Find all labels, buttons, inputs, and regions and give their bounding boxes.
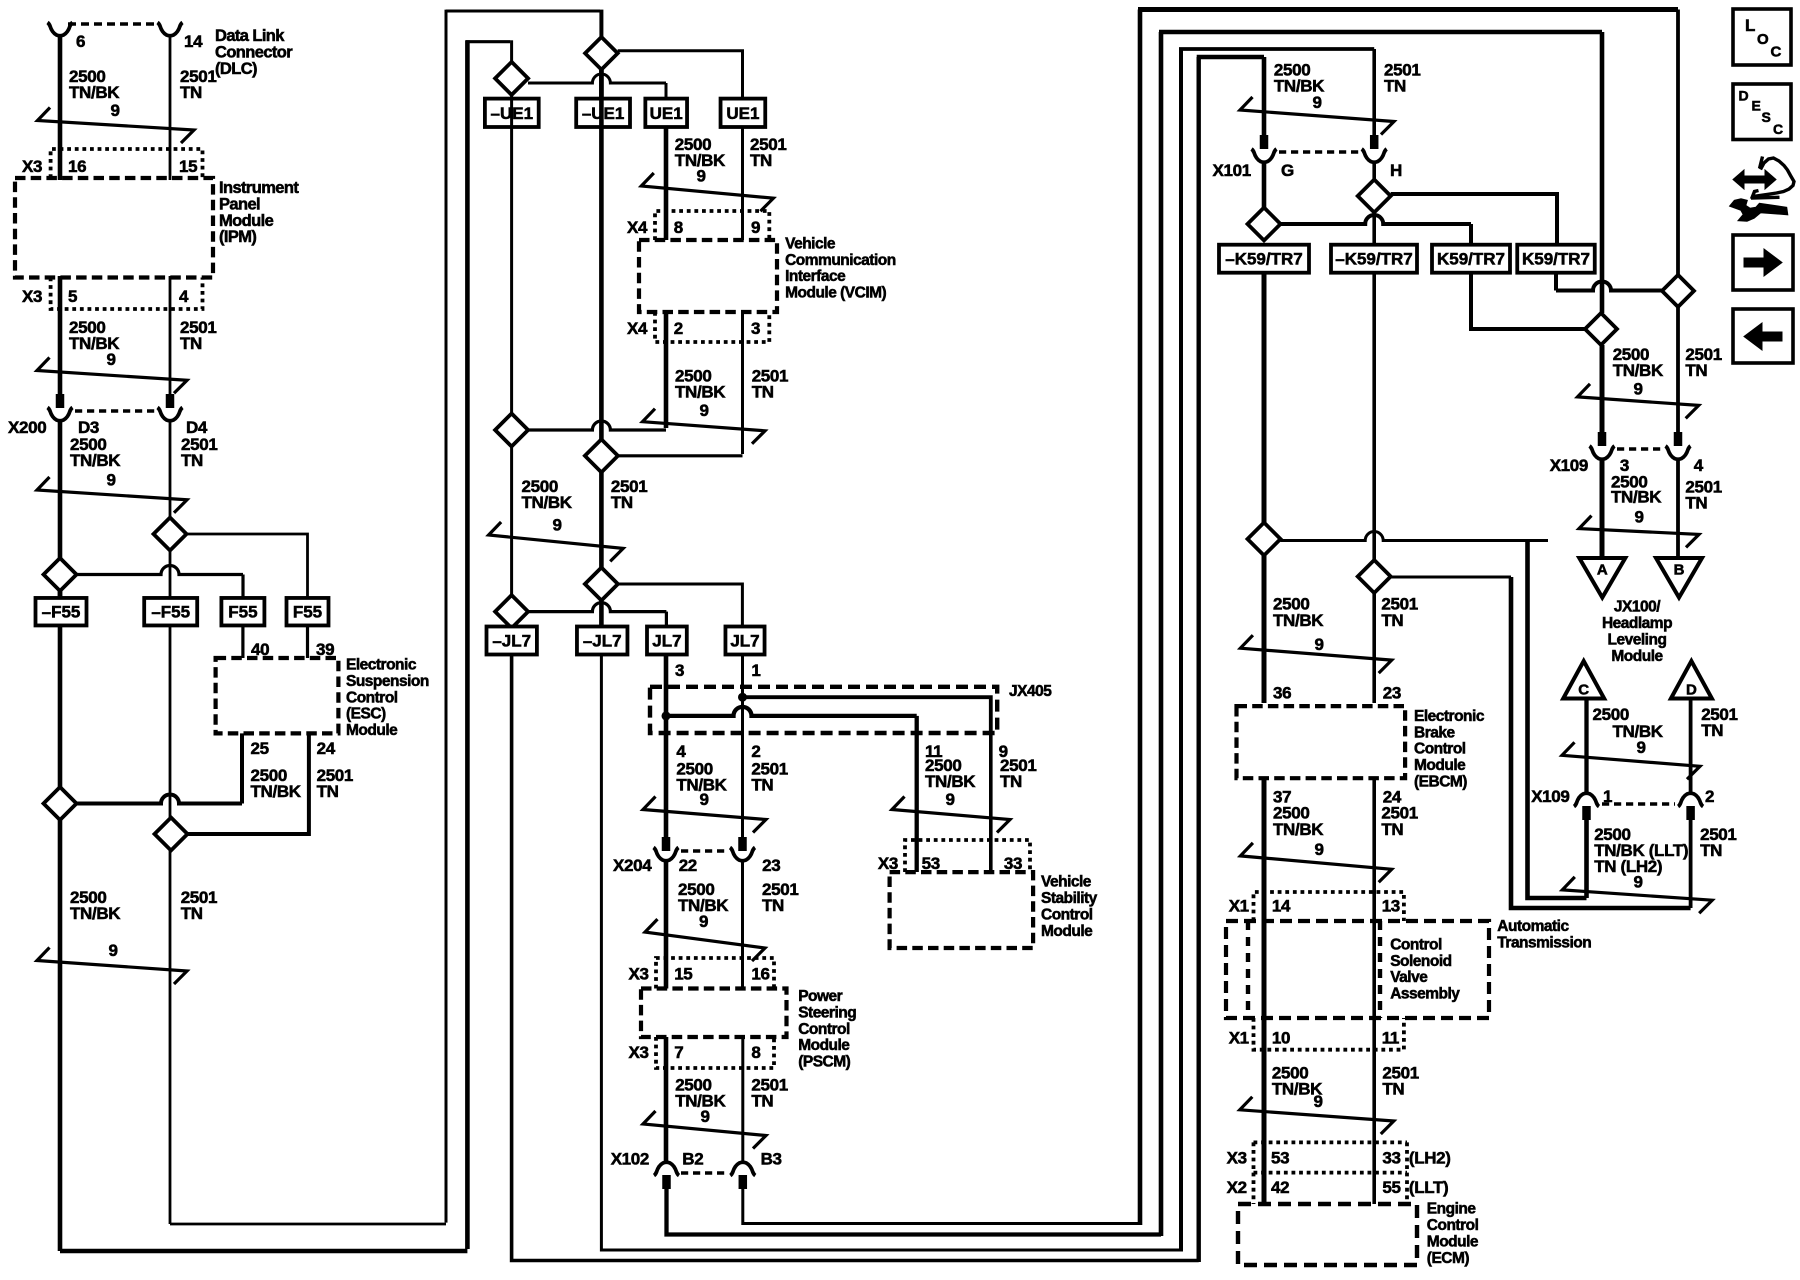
wire 2500 X102 to bottom run	[667, 1189, 1162, 1235]
connector X204 pin 23 stub	[738, 837, 747, 851]
wire 2501 long down left side	[169, 851, 172, 1225]
svg-text:TN: TN	[1685, 494, 1707, 513]
svg-text:Steering: Steering	[798, 1004, 856, 1021]
svg-text:X102: X102	[611, 1150, 649, 1169]
svg-text:9: 9	[552, 516, 561, 535]
svg-text:9: 9	[699, 912, 708, 931]
wire 2501 X200 down	[169, 421, 172, 518]
connector X200 pin D3 cup	[48, 408, 73, 421]
svg-text:F55: F55	[293, 603, 322, 622]
wire ESC pin24 loop to 2501 splice	[188, 733, 309, 834]
svg-text:9: 9	[945, 790, 954, 809]
wire 2500 X109-3 to triangle A	[1600, 459, 1605, 559]
svg-text:TN: TN	[611, 493, 633, 512]
svg-text:Control: Control	[798, 1021, 850, 1038]
svg-text:Control: Control	[1041, 906, 1093, 923]
wire 2500 JX405 pin4 to X204	[664, 733, 669, 838]
svg-text:14: 14	[184, 32, 203, 51]
svg-text:24: 24	[317, 739, 336, 758]
svg-text:(EBCM): (EBCM)	[1414, 774, 1467, 791]
splice diamond on 2501	[154, 518, 187, 551]
option box -F55 on wire 2501	[144, 598, 197, 626]
wire frame1 top 2501	[1138, 7, 1678, 12]
connector strip X3 IPM top	[51, 149, 203, 178]
svg-text:Module: Module	[1611, 648, 1663, 665]
svg-text:TN (LH2): TN (LH2)	[1594, 857, 1662, 876]
svg-text:C: C	[1773, 121, 1783, 137]
svg-text:53: 53	[1271, 1149, 1289, 1168]
wire frame1 right 2501 drop to diamond	[1676, 10, 1680, 275]
wire 2501 top run to bus	[446, 10, 600, 13]
wire ESC pin25 loop to 2500 splice with hop over 2501	[240, 733, 244, 803]
connector strip X3 VSCM	[905, 840, 1030, 872]
svg-text:33: 33	[1382, 1149, 1400, 1168]
splice diamond E on 2501 bus	[585, 568, 618, 601]
svg-text:16: 16	[751, 965, 769, 984]
svg-text:Transmission: Transmission	[1497, 934, 1591, 951]
wire diamond E to JL7 box4	[618, 584, 743, 627]
connector X204 pin 23 cup	[730, 848, 755, 861]
svg-text:X204: X204	[613, 856, 652, 875]
wire pin16 into IPM	[58, 151, 63, 180]
twisted pair symbol 9	[1240, 635, 1391, 673]
junction dot 2500	[662, 711, 671, 720]
connector X101 pin H cup	[1362, 149, 1387, 162]
svg-text:TN: TN	[1000, 772, 1022, 791]
svg-text:TN: TN	[751, 775, 773, 794]
wire 2501 JX405 pin9 to VSCM	[989, 733, 993, 872]
connector X109 pin 2 cup	[1678, 793, 1703, 806]
module box Automatic Transmission	[1226, 921, 1489, 1018]
twisted pair symbol 9	[641, 173, 773, 211]
svg-text:TN: TN	[750, 151, 772, 170]
svg-text:X2: X2	[1227, 1178, 1247, 1197]
wire pin15 into IPM	[169, 151, 172, 180]
wire 2501 triangle D to X109-2	[1689, 699, 1693, 795]
wire 2500 through CSVA	[1262, 921, 1267, 1018]
wire 2500 X109-1 down to corner	[1584, 820, 1589, 898]
wire 2501 X1-11 to ECM	[1372, 1018, 1376, 1204]
svg-text:Headlamp: Headlamp	[1602, 615, 1672, 632]
twisted pair symbol 9	[892, 797, 1010, 833]
svg-text:9: 9	[751, 218, 760, 237]
wire frame2 top 2500	[1159, 30, 1602, 34]
splice diamond C on 2500 bus	[495, 414, 528, 447]
wire 2501 through CSVA	[1372, 921, 1376, 1018]
svg-text:TN: TN	[751, 1091, 773, 1110]
wire 2501 upper run to diamond H2	[1390, 576, 1511, 579]
sidebar box left-arrow	[1733, 309, 1793, 363]
connector X109 pin 3 cup	[1590, 446, 1615, 459]
wire JX405 2501 branch to pin 9	[743, 697, 991, 733]
connector row X2 ECM	[1254, 1171, 1408, 1175]
wire 2501 EBCM pin24 to X1-13	[1372, 778, 1376, 921]
svg-text:Data Link: Data Link	[215, 27, 285, 45]
svg-text:JL7: JL7	[730, 632, 759, 651]
connector X101 pin H stub	[1370, 135, 1379, 149]
twisted pair symbol 9	[37, 358, 187, 394]
svg-text:9: 9	[1313, 1092, 1322, 1111]
connector X109 pin 2 stub	[1686, 806, 1695, 820]
connector strip X4 VCIM top	[655, 211, 769, 240]
wire frame4 top 2500	[1197, 55, 1264, 59]
connector DLC face dashed line	[68, 22, 158, 26]
option box -K59/TR7 on 2501	[1331, 245, 1417, 273]
wire 2501 X109-2 down to corner	[1689, 820, 1693, 908]
svg-text:–K59/TR7: –K59/TR7	[1225, 250, 1302, 269]
wire 2500 -JL7 continuation to bottom run	[512, 655, 1199, 1261]
offpage triangle A	[1579, 558, 1625, 598]
connector strip X3 PSCM bottom	[656, 1037, 774, 1068]
svg-text:TN: TN	[1700, 841, 1722, 860]
svg-text:Module: Module	[1041, 923, 1093, 940]
svg-text:13: 13	[1382, 896, 1400, 915]
svg-text:F55: F55	[228, 603, 257, 622]
wire 2501 TN DLC to IPM	[169, 36, 172, 152]
option box UE1 2500 branch	[645, 99, 687, 127]
svg-text:TN: TN	[1381, 611, 1403, 630]
svg-text:D: D	[1739, 88, 1749, 104]
svg-text:Control: Control	[346, 689, 398, 706]
option box JL7 2501 branch	[725, 627, 764, 655]
wire B 2501 drop to X109-4	[1676, 307, 1680, 432]
option box F55 ESC branch 2500	[221, 598, 264, 626]
svg-text:Instrument: Instrument	[219, 179, 299, 197]
junction dot 2501	[738, 693, 747, 702]
svg-text:Module: Module	[798, 1037, 850, 1054]
twisted pair symbol 9	[37, 948, 187, 985]
sidebar car icon	[1751, 157, 1794, 199]
offpage triangle C	[1563, 661, 1604, 699]
wire 2500 corner run to riser	[1528, 541, 1587, 899]
wire A 2500 drop to X109-3	[1600, 345, 1605, 432]
svg-text:TN/BK: TN/BK	[70, 451, 121, 470]
svg-text:TN/BK: TN/BK	[1273, 611, 1324, 630]
connector X109 pin 1 stub	[1582, 806, 1591, 820]
svg-text:55: 55	[1382, 1178, 1400, 1197]
wire 2500 through JX405 to pin 4	[664, 716, 669, 733]
svg-text:TN: TN	[1701, 721, 1723, 740]
option box JL7 2500 branch	[647, 627, 687, 655]
svg-text:Control: Control	[1414, 741, 1466, 758]
connector X204 pin 22 cup	[654, 848, 679, 861]
connector DLC pin 14 cup	[158, 23, 183, 36]
wire 2500 JX405 pin11 to VSCM	[915, 733, 919, 872]
wire VCIM pin3 down	[741, 312, 744, 454]
connector X109 pin 4 stub	[1674, 432, 1683, 446]
connector X200 pin D4 stub	[166, 394, 175, 408]
svg-text:9: 9	[696, 167, 705, 186]
svg-text:9: 9	[1314, 840, 1323, 859]
connector X101 pin G cup	[1252, 149, 1277, 162]
twisted pair symbol 9	[1562, 877, 1712, 913]
splice diamond B on 2500 bus	[495, 62, 528, 95]
svg-text:TN: TN	[1384, 77, 1406, 96]
connector strip X3 PSCM top	[656, 958, 774, 989]
svg-text:9: 9	[106, 471, 115, 490]
svg-text:C: C	[1578, 682, 1589, 699]
svg-text:TN/BK: TN/BK	[1611, 488, 1662, 507]
connector X109 pin 3 stub	[1598, 432, 1607, 446]
svg-text:Vehicle: Vehicle	[785, 235, 836, 252]
svg-text:TN/BK: TN/BK	[925, 772, 976, 791]
svg-text:TN: TN	[762, 896, 784, 915]
wire UE1 box4 to VCIM pin 9	[741, 127, 744, 240]
option box -UE1 on 2500	[485, 99, 539, 127]
svg-text:Leveling: Leveling	[1608, 631, 1667, 648]
connector X200 pin D4 cup	[158, 408, 183, 421]
svg-text:Solenoid: Solenoid	[1390, 953, 1451, 970]
svg-text:Electronic: Electronic	[1414, 708, 1485, 725]
wire diamond H to K59 box4	[1391, 194, 1557, 245]
module box EBCM	[1237, 706, 1406, 778]
svg-text:C: C	[1771, 44, 1782, 61]
wire 2501 JX405 pin2 to X204	[741, 733, 744, 838]
svg-text:G: G	[1281, 161, 1294, 180]
svg-text:–JL7: –JL7	[583, 632, 622, 651]
splice diamond on 2500	[44, 558, 77, 591]
svg-text:8: 8	[751, 1043, 760, 1062]
connector X109 pin 4 cup	[1666, 446, 1691, 459]
svg-text:TN: TN	[317, 782, 339, 801]
svg-text:3: 3	[751, 319, 760, 338]
twisted pair symbol 9	[643, 797, 766, 833]
svg-text:Communication: Communication	[785, 252, 896, 269]
wire 2500 IPM to X200	[58, 276, 63, 394]
splice diamond on B wire	[1662, 275, 1694, 307]
svg-text:S: S	[1762, 109, 1771, 125]
svg-text:Module: Module	[1427, 1234, 1479, 1251]
svg-text:B3: B3	[761, 1150, 782, 1169]
svg-text:22: 22	[679, 856, 697, 875]
wire frame2 riser 2500	[1159, 32, 1164, 1236]
svg-text:9: 9	[699, 401, 708, 420]
wire 2500 PSCM pin7 to X102	[664, 1037, 669, 1163]
wire diamond B to UE1 box3 with hop over 2501	[528, 74, 666, 83]
svg-text:(ESC): (ESC)	[346, 706, 386, 723]
wire JL7 box4 to JX405	[741, 655, 744, 698]
sidebar left arrow	[1744, 323, 1782, 350]
module box VCIM	[639, 240, 777, 312]
svg-text:Assembly: Assembly	[1390, 986, 1460, 1003]
wire 2501 bus drop to diamond	[599, 10, 603, 37]
svg-text:TN/BK: TN/BK	[675, 383, 726, 402]
twisted pair symbol 9	[1240, 843, 1391, 882]
connector X102 pin B2 stub	[662, 1175, 671, 1189]
wire 2500 bottom run left col to riser	[60, 1249, 467, 1254]
svg-text:E: E	[1752, 98, 1761, 114]
module box ECM	[1238, 1204, 1417, 1265]
twisted pair symbol 9	[38, 108, 195, 144]
svg-text:–F55: –F55	[151, 603, 190, 622]
option box -K59/TR7 on 2500	[1219, 245, 1309, 273]
svg-text:–JL7: –JL7	[492, 632, 531, 651]
svg-text:D: D	[1686, 682, 1697, 699]
connector strip X1 bottom	[1254, 1018, 1404, 1050]
svg-text:B: B	[1674, 562, 1685, 579]
wire 2501 diamond H to K59 box2	[1372, 212, 1376, 245]
svg-text:L: L	[1745, 16, 1755, 35]
svg-text:A: A	[1597, 562, 1608, 579]
svg-text:15: 15	[179, 157, 197, 176]
wire 2501 PSCM pin8 to X102	[741, 1037, 744, 1163]
svg-text:–F55: –F55	[42, 603, 81, 622]
svg-text:UE1: UE1	[726, 104, 759, 123]
svg-text:TN/BK: TN/BK	[69, 83, 120, 102]
sidebar double arrow	[1733, 170, 1776, 189]
wire 2500 X1-10 to ECM	[1262, 1018, 1267, 1204]
option box -UE1 on 2501	[576, 99, 630, 127]
splice diamond on 2501	[155, 818, 188, 851]
svg-text:2: 2	[1705, 787, 1714, 806]
connector X102 pin B2 cup	[654, 1162, 679, 1175]
svg-text:2: 2	[751, 742, 760, 761]
wire 2500 between F55 and splice	[58, 626, 63, 788]
svg-text:23: 23	[1383, 684, 1401, 703]
svg-text:11: 11	[1382, 1028, 1399, 1047]
twisted pair symbol 9	[643, 1111, 766, 1149]
svg-text:2: 2	[674, 319, 683, 338]
svg-text:9: 9	[1633, 872, 1642, 891]
svg-text:9: 9	[106, 350, 115, 369]
wire JX405 2500 branch to pin 11 with hop over 2501	[666, 707, 917, 716]
svg-text:4: 4	[1694, 456, 1704, 475]
wire 2500 K59 box1 to diamond G2	[1262, 273, 1267, 523]
option box K59/TR7 2501 branch	[1517, 245, 1595, 273]
connector X109 pin 1 cup	[1574, 793, 1599, 806]
svg-text:9: 9	[108, 941, 117, 960]
svg-text:6: 6	[76, 32, 85, 51]
svg-text:16: 16	[68, 157, 86, 176]
wire 2500 diamond to F55 box3 with hop over 2501	[77, 566, 244, 575]
connector X200 pin D3 stub	[56, 394, 65, 408]
wire frame3 drop to X101 H	[1372, 49, 1376, 135]
svg-text:Module: Module	[1414, 757, 1466, 774]
svg-text:X200: X200	[8, 418, 46, 437]
svg-text:K59/TR7: K59/TR7	[1437, 250, 1505, 269]
wire 2501 through diamond	[169, 551, 172, 599]
offpage triangle D	[1671, 661, 1712, 699]
wire diamond G to K59 box3 with hop over 2501	[1281, 215, 1472, 224]
module box PSCM	[641, 989, 787, 1038]
wire 2500 EBCM pin37 to X1-14	[1262, 778, 1267, 921]
wire JL7 box3 to JX405	[664, 655, 669, 717]
svg-text:TN: TN	[181, 451, 203, 470]
wire 2500 X204 to PSCM	[664, 861, 669, 989]
svg-text:X3: X3	[22, 157, 42, 176]
wire 2500 through diamond	[58, 591, 63, 598]
option box F55 ESC branch 2501	[287, 598, 329, 626]
connector X109 dashed line 1-2	[1602, 802, 1675, 806]
twisted pair symbol 9	[643, 409, 766, 444]
wire 2500 bus to diamond F	[510, 447, 513, 596]
wire 2501 bus to diamond E	[599, 472, 604, 567]
twisted pair symbol 9	[1562, 742, 1700, 779]
connector strip X1 top	[1254, 892, 1404, 921]
wire VCIM pin2 down	[664, 312, 669, 428]
svg-text:X1: X1	[1229, 1028, 1249, 1047]
svg-text:5: 5	[68, 287, 77, 306]
svg-text:3: 3	[675, 661, 684, 680]
svg-text:4: 4	[676, 742, 686, 761]
svg-text:X3: X3	[629, 965, 649, 984]
wire 2501 corner run to riser	[1511, 577, 1691, 908]
svg-text:(ECM): (ECM)	[1427, 1250, 1470, 1267]
wire 2501 IPM to X200	[169, 276, 172, 394]
svg-text:TN/BK: TN/BK	[522, 493, 573, 512]
option box K59/TR7 2500 branch	[1432, 245, 1510, 273]
svg-text:B2: B2	[682, 1150, 703, 1169]
wire 2501 X109-4 to triangle B	[1676, 459, 1680, 559]
module box IPM	[15, 178, 213, 278]
svg-text:9: 9	[1634, 508, 1643, 527]
wire 2501 X101 to diamond H	[1372, 162, 1376, 180]
svg-text:Module: Module	[219, 212, 274, 230]
module box VSCM	[890, 872, 1034, 948]
svg-text:1: 1	[751, 661, 760, 680]
svg-text:TN/BK: TN/BK	[70, 904, 121, 923]
svg-text:X109: X109	[1550, 456, 1588, 475]
junction JX405 splice box	[650, 687, 997, 733]
svg-text:Control: Control	[1427, 1217, 1479, 1234]
svg-text:TN: TN	[1381, 820, 1403, 839]
svg-text:TN: TN	[180, 334, 202, 353]
sidebar box LOC	[1733, 9, 1791, 65]
twisted pair symbol 9	[489, 522, 624, 561]
wire 2500 drop to diamond B	[510, 40, 513, 62]
wire 2501 through JX405 to pin 2	[741, 697, 744, 733]
wire F55 box3 to ESC pin 40	[241, 626, 244, 659]
wire 2501 diamond to F55 box4	[187, 534, 308, 598]
wire diamond C to VCIM pin2 with hop over 2501	[528, 421, 666, 430]
partition dashed CSVA left	[1246, 921, 1250, 1018]
wire K59 box3 to A-wire diamond	[1471, 273, 1585, 329]
wire riser 2500 left	[465, 40, 470, 1249]
option box -JL7 on 2501	[577, 627, 628, 655]
svg-text:9: 9	[1636, 738, 1645, 757]
twisted pair symbol 9	[1240, 1097, 1394, 1134]
wire 2500 X200 down	[58, 421, 63, 599]
svg-text:TN: TN	[1685, 361, 1707, 380]
wire K59 box4 to B-wire diamond with hop over A wire	[1554, 273, 1558, 291]
twisted pair symbol 9	[1578, 384, 1699, 419]
module box ESC	[216, 658, 339, 733]
wire 2500 triangle C to X109-1	[1584, 699, 1588, 795]
svg-text:X3: X3	[1227, 1149, 1247, 1168]
svg-text:X1: X1	[1229, 896, 1249, 915]
svg-text:Stability: Stability	[1041, 890, 1098, 907]
wire frame4 drop to X101 G	[1262, 57, 1267, 135]
wire frame1 riser 2501	[1138, 10, 1143, 1226]
svg-text:Module (VCIM): Module (VCIM)	[785, 285, 886, 302]
wire frame3 top 2501	[1179, 47, 1374, 51]
svg-text:Vehicle: Vehicle	[1041, 874, 1092, 891]
svg-text:X4: X4	[627, 319, 648, 338]
sidebar box right-arrow	[1733, 235, 1793, 290]
svg-text:Valve: Valve	[1390, 969, 1428, 986]
wire 2500 X101 to diamond G	[1262, 162, 1267, 208]
wire frame4 riser 2500	[1196, 57, 1200, 1262]
connector X109 dashed line 3-4	[1617, 447, 1663, 451]
splice diamond G on 2500	[1248, 208, 1281, 241]
wire diamond F to JL7 box3 with hop over 2501	[528, 603, 666, 612]
svg-text:UE1: UE1	[650, 104, 683, 123]
svg-text:(PSCM): (PSCM)	[798, 1054, 850, 1071]
svg-text:9: 9	[110, 101, 119, 120]
option box -JL7 on 2500	[487, 627, 537, 655]
svg-text:TN/BK: TN/BK	[1613, 361, 1664, 380]
svg-text:X109: X109	[1531, 787, 1569, 806]
